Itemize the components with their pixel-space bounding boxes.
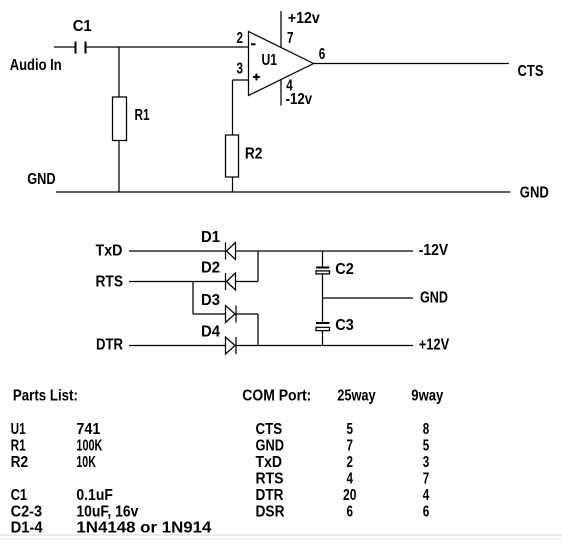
svg-text:CTS: CTS (518, 63, 544, 80)
svg-text:C3: C3 (335, 317, 354, 334)
svg-text:DTR: DTR (96, 336, 123, 353)
svg-text:Audio In: Audio In (10, 57, 62, 74)
svg-text:CTS: CTS (256, 421, 283, 438)
svg-text:2: 2 (347, 454, 354, 471)
svg-text:DTR: DTR (256, 487, 284, 504)
svg-text:20: 20 (343, 487, 357, 504)
svg-text:3: 3 (423, 454, 430, 471)
svg-text:7: 7 (423, 471, 430, 488)
svg-text:D1-4: D1-4 (11, 520, 43, 537)
svg-text:R2: R2 (11, 454, 29, 471)
svg-text:DSR: DSR (256, 504, 285, 521)
svg-text:1N4148 or 1N914: 1N4148 or 1N914 (76, 520, 211, 537)
svg-text:10uF, 16v: 10uF, 16v (76, 504, 138, 521)
svg-text:GND: GND (27, 171, 56, 188)
svg-text:100K: 100K (76, 437, 103, 454)
svg-text:RTS: RTS (256, 471, 284, 488)
svg-text:5: 5 (347, 421, 354, 438)
svg-text:6: 6 (423, 504, 430, 521)
svg-text:+12v: +12v (288, 10, 320, 27)
svg-text:7: 7 (287, 30, 294, 47)
svg-text:-12v: -12v (286, 91, 313, 108)
svg-text:D2: D2 (201, 260, 220, 277)
svg-text:U1: U1 (11, 421, 26, 438)
svg-text:D1: D1 (201, 229, 220, 246)
svg-text:GND: GND (256, 437, 285, 454)
svg-text:-12V: -12V (419, 242, 449, 259)
svg-text:3: 3 (237, 61, 244, 78)
svg-text:C2-3: C2-3 (11, 504, 43, 521)
svg-text:R1: R1 (11, 437, 26, 454)
svg-text:0.1uF: 0.1uF (76, 487, 113, 504)
svg-text:Parts List:: Parts List: (13, 387, 78, 404)
svg-text:25way: 25way (337, 387, 376, 404)
svg-text:C1: C1 (73, 18, 92, 35)
svg-text:8: 8 (423, 421, 430, 438)
svg-text:GND: GND (420, 289, 448, 306)
svg-text:6: 6 (319, 46, 326, 63)
svg-text:5: 5 (423, 437, 430, 454)
svg-text:+12V: +12V (419, 337, 450, 354)
svg-text:R1: R1 (135, 107, 150, 124)
svg-text:C2: C2 (335, 261, 354, 278)
svg-text:10K: 10K (76, 454, 96, 471)
svg-text:2: 2 (237, 30, 244, 47)
svg-text:COM Port:: COM Port: (242, 387, 311, 404)
svg-text:C1: C1 (11, 487, 28, 504)
svg-text:U1: U1 (262, 52, 278, 69)
svg-text:RTS: RTS (96, 273, 124, 290)
svg-text:7: 7 (347, 437, 354, 454)
svg-text:9way: 9way (411, 387, 443, 404)
svg-text:TxD: TxD (96, 243, 123, 260)
svg-text:R2: R2 (245, 145, 263, 162)
svg-text:TxD: TxD (256, 454, 283, 471)
svg-text:4: 4 (347, 471, 354, 488)
svg-text:GND: GND (520, 184, 549, 201)
svg-text:D3: D3 (201, 292, 220, 309)
svg-text:D4: D4 (201, 324, 220, 341)
svg-text:6: 6 (347, 504, 354, 521)
svg-text:4: 4 (423, 487, 430, 504)
svg-text:741: 741 (76, 421, 100, 438)
